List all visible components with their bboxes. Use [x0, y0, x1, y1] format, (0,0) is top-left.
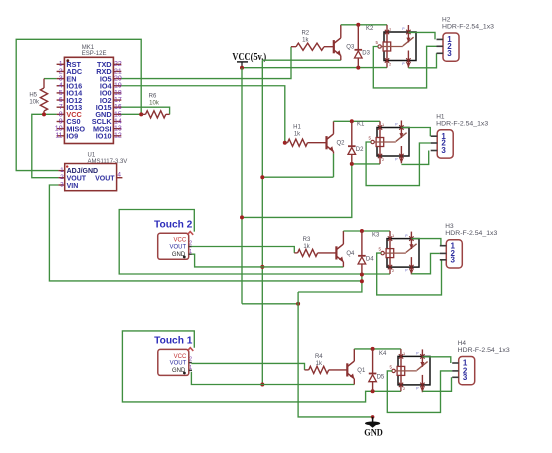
header H4 pin 1 stub [452, 362, 459, 364]
svg-text:K4: K4 [379, 351, 387, 357]
svg-text:H5: H5 [29, 93, 37, 99]
ground symbol GND [364, 415, 383, 439]
svg-text:MK1: MK1 [82, 45, 95, 51]
svg-text:21: 21 [114, 68, 122, 75]
MK1 pin 1 (RST) stub [57, 63, 65, 65]
svg-text:Q1: Q1 [357, 368, 366, 374]
wire IO5 to R2 [121, 47, 291, 79]
MK1 pin 8 (VCC) stub [57, 113, 65, 115]
header H1 pin 3 stub [431, 150, 438, 152]
junction D3 top [356, 23, 360, 27]
wire Touch2 VCC loop to 5V rail / K3 coil [119, 210, 390, 275]
wire K4 bottom contact to H4 pin3 [422, 377, 451, 391]
svg-text:HDR-F-2.54_1x3: HDR-F-2.54_1x3 [442, 24, 494, 31]
K1 coil top pin [379, 121, 381, 127]
svg-text:VCC: VCC [174, 238, 187, 244]
U1 pin 2 (VOUT) stub [58, 177, 64, 179]
MK1 pin 18 (IO0) stub [113, 92, 121, 94]
Touch 1 VOUT pin stub [189, 362, 192, 364]
wire IO15 to R6 [121, 107, 169, 114]
header header H2 [437, 17, 495, 62]
wire K3 top contact to H3 pin1 [411, 239, 441, 246]
junction D5 top [371, 347, 375, 351]
wire K1 top contact to H1 pin1 [401, 128, 430, 137]
wire Touch1 VOUT to R4 [191, 363, 304, 370]
relay relay K3 [379, 232, 420, 275]
wire U1 VIN to 5V rail [49, 185, 362, 281]
MK1 pin 22 (TXD) stub [113, 63, 121, 65]
K4 coil top pin [400, 349, 402, 357]
svg-text:5: 5 [59, 90, 63, 97]
svg-text:20: 20 [114, 76, 122, 83]
Touch 2 VCC pin [187, 232, 193, 235]
svg-text:H1: H1 [436, 113, 445, 120]
svg-text:3: 3 [463, 373, 468, 382]
svg-text:4: 4 [117, 172, 121, 179]
svg-text:Q3: Q3 [346, 45, 355, 51]
svg-text:H1: H1 [293, 125, 301, 131]
svg-text:ESP-12E: ESP-12E [82, 51, 107, 57]
svg-text:D3: D3 [362, 51, 370, 57]
svg-text:VOUT: VOUT [170, 244, 187, 250]
wire K4 pin5 to H4 pin2 [387, 371, 452, 413]
wire Q2 collector to K1 coil top [334, 120, 381, 122]
header H3 pin 1 stub [440, 245, 447, 247]
junction VCC/K1 branch [240, 215, 244, 219]
header H4 pin 2 stub [452, 370, 459, 372]
MK1 pin 11 (IO9) stub [57, 135, 65, 137]
header H2 pin 1 stub [437, 38, 444, 40]
junction GND/Q2 emitter [260, 175, 264, 179]
junction H5/VCC [42, 112, 46, 116]
junction VCC [240, 66, 244, 70]
svg-text:12: 12 [114, 133, 122, 140]
relay relay K2 [376, 25, 417, 68]
wire node to GND symbol run [298, 292, 373, 417]
MK1 pin 7 (IO13) stub [57, 106, 65, 108]
junction D5 bottom [371, 389, 375, 393]
MK1 pin 2 (ADC) stub [57, 70, 65, 72]
Touch 1 VCC pin [187, 348, 193, 351]
header H4 pin 3 stub [452, 376, 459, 378]
wire 3.3V: VCC pin to U1 VOUT [32, 114, 59, 177]
svg-text:IO9: IO9 [66, 132, 78, 141]
wire Q4 collector to K3 coil top [343, 230, 390, 232]
IC MK1 ESP-12E [55, 45, 122, 144]
svg-text:10k: 10k [149, 101, 160, 107]
svg-text:7: 7 [59, 104, 63, 111]
wire Touch2 GND [192, 254, 344, 267]
resistor R6 [141, 94, 169, 118]
svg-text:1: 1 [189, 365, 192, 371]
svg-text:1k: 1k [303, 244, 310, 250]
svg-text:2: 2 [59, 68, 63, 75]
header H1 pin 2 stub [431, 142, 438, 144]
svg-text:VOUT: VOUT [67, 175, 87, 182]
svg-text:3: 3 [451, 256, 456, 265]
wire node to 5V-rail link [298, 275, 362, 293]
svg-text:H4: H4 [458, 340, 467, 347]
wire Q1 collector to K4 coil top [354, 348, 401, 350]
wire K2 top contact to H2 pin1 [408, 32, 435, 39]
junction D4 bottom [360, 273, 364, 277]
wire K1 bottom contact to H1 pin3 [401, 151, 428, 165]
K3 coil top pin [389, 231, 391, 239]
svg-text:2: 2 [189, 357, 192, 363]
svg-text:Touch 1: Touch 1 [154, 336, 193, 347]
transistor Q3 [334, 25, 355, 60]
wire Touch1 VCC loop to K4 coil [122, 331, 401, 402]
header H1 pin 1 stub [431, 135, 438, 137]
wire K3 bottom contact to H3 pin2 [411, 253, 439, 273]
junction GND/Touch1 GND [260, 383, 264, 387]
svg-text:Q2: Q2 [337, 141, 346, 147]
svg-text:D4: D4 [366, 257, 374, 263]
svg-text:1k: 1k [294, 132, 301, 138]
svg-text:14: 14 [114, 118, 122, 125]
MK1 pin 6 (IO12) stub [57, 99, 65, 101]
header H2 pin 2 stub [437, 45, 444, 47]
wire IO4 to H1 resistor [121, 86, 284, 143]
MK1 pin 16 (IO15) stub [113, 106, 121, 108]
wire Touch1 GND / Q1 emitter [191, 372, 354, 385]
svg-text:13: 13 [114, 126, 122, 133]
MK1 pin 9 (CS0) stub [57, 121, 65, 123]
svg-text:HDR-F-2.54_1x3: HDR-F-2.54_1x3 [458, 347, 510, 354]
supply symbol VCC(5v.) [232, 52, 266, 68]
U1 pin 4 (VOUT) stub [117, 177, 123, 179]
svg-text:10k: 10k [29, 100, 40, 106]
junction D3 bottom [356, 66, 360, 70]
svg-text:4: 4 [59, 83, 63, 90]
wire Touch2 VOUT to R3 [191, 247, 294, 253]
svg-text:H2: H2 [442, 17, 451, 24]
MK1 pin 20 (IO5) stub [113, 78, 121, 80]
transistor Q2 [327, 121, 346, 177]
U1 pin 3 (VIN) stub [58, 184, 64, 186]
svg-text:16: 16 [114, 104, 122, 111]
wire GND pin to R6 and ADJ/GND loop [121, 113, 141, 115]
svg-text:K3: K3 [372, 233, 380, 239]
wire K1 pin5 to H1 pin2 [366, 142, 431, 186]
Touch 2 GND pin stub [189, 253, 192, 255]
resistor R3 [294, 237, 336, 257]
MK1 pin 17 (IO2) stub [113, 99, 121, 101]
MK1 pin 21 (RXD) stub [113, 70, 121, 72]
svg-text:D2: D2 [356, 147, 364, 153]
wire K4 top contact to H4 pin1 [422, 357, 450, 363]
relay relay K4 [390, 349, 431, 392]
svg-text:R3: R3 [303, 237, 311, 243]
wire K3 pin5 to H3 pin3 [377, 253, 442, 295]
svg-text:R4: R4 [315, 354, 323, 360]
svg-text:18: 18 [114, 90, 122, 97]
svg-text:IO10: IO10 [96, 132, 112, 141]
svg-text:H3: H3 [445, 223, 454, 230]
svg-text:1k: 1k [302, 38, 309, 44]
junction D2 bottom [350, 162, 354, 166]
svg-text:K1: K1 [357, 122, 365, 128]
svg-text:2: 2 [189, 241, 192, 247]
MK1 pin 13 (MOSI) stub [113, 128, 121, 130]
svg-text:GND: GND [364, 429, 383, 439]
header header H4 [452, 340, 510, 385]
transistor Q4 [336, 231, 355, 267]
junction D4 top [360, 229, 364, 233]
svg-text:R6: R6 [149, 94, 157, 100]
svg-text:HDR-F-2.54_1x3: HDR-F-2.54_1x3 [445, 230, 497, 237]
header header H3 [440, 223, 498, 268]
svg-text:D5: D5 [377, 374, 385, 380]
wire Q3 collector to K2 coil top [341, 24, 387, 26]
wire VCC rail bottom to node [242, 303, 298, 305]
svg-text:3: 3 [59, 76, 63, 83]
wire GND rail horizontal (Q3 emitter) [262, 59, 341, 61]
MK1 pin 4 (IO16) stub [57, 85, 65, 87]
resistor H5 [29, 79, 47, 115]
U1 pin 1 (ADJ/GND) stub [58, 170, 64, 172]
junction VCC bottom node [296, 302, 300, 306]
wire VCC vertical rail [241, 68, 243, 304]
svg-text:Touch 2: Touch 2 [154, 220, 193, 231]
header H3 pin 2 stub [440, 252, 447, 254]
junction VIN/5V link [360, 279, 364, 283]
svg-text:10: 10 [55, 126, 63, 133]
MK1 pin 14 (SCLK) stub [113, 121, 121, 123]
Touch 2 VOUT pin stub [189, 246, 192, 248]
svg-text:11: 11 [55, 133, 62, 140]
svg-text:HDR-F-2.54_1x3: HDR-F-2.54_1x3 [436, 120, 488, 127]
relay relay K1 [369, 121, 410, 164]
MK1 pin 3 (EN) stub [57, 78, 65, 80]
svg-text:17: 17 [114, 97, 122, 104]
Touch 1 GND pin stub [189, 369, 192, 371]
svg-text:3: 3 [447, 49, 452, 58]
resistor H1 [285, 125, 327, 147]
MK1 pin 10 (MISO) stub [57, 128, 65, 130]
svg-text:VOUT: VOUT [95, 175, 115, 182]
K3 coil bottom pin [389, 267, 391, 274]
resistor R4 [305, 354, 348, 374]
svg-text:1: 1 [59, 61, 63, 68]
svg-text:15: 15 [114, 111, 122, 118]
wire VCC rail to D3/K2 coil [242, 67, 387, 69]
svg-text:ADJ/GND: ADJ/GND [67, 168, 99, 175]
K1 coil bottom pin [379, 156, 381, 164]
svg-text:6: 6 [59, 97, 63, 104]
MK1 pin 19 (IO4) stub [113, 85, 121, 87]
K4 coil bottom pin [400, 385, 402, 391]
wire K2 pin5 to H2 pin2 [373, 46, 436, 88]
junction D2 top [350, 119, 354, 123]
svg-text:3: 3 [441, 146, 446, 155]
svg-text:VIN: VIN [67, 183, 79, 190]
svg-text:3: 3 [60, 181, 64, 188]
resistor R2 [291, 31, 334, 51]
svg-text:VCC(5v.): VCC(5v.) [232, 52, 266, 63]
svg-text:K2: K2 [366, 26, 374, 32]
svg-text:9: 9 [59, 118, 63, 125]
junction IO4/H1 [283, 141, 287, 145]
svg-text:19: 19 [114, 83, 122, 90]
IC U1 AMS1117-3.3V [58, 153, 127, 191]
diode D2 [348, 121, 364, 164]
junction R6 left [139, 112, 143, 116]
header H3 pin 3 stub [440, 259, 447, 261]
svg-text:VCC: VCC [174, 354, 187, 360]
svg-text:1: 1 [60, 167, 64, 174]
touch module Touch 2 [154, 220, 193, 260]
svg-text:R2: R2 [301, 31, 309, 37]
MK1 pin 5 (IO14) stub [57, 92, 65, 94]
svg-text:1k: 1k [316, 361, 323, 367]
transistor Q1 [347, 349, 366, 385]
MK1 pin 15 (GND) stub [113, 113, 121, 115]
svg-text:U1: U1 [88, 153, 96, 159]
diode D4 [358, 231, 374, 275]
diode D3 [355, 25, 371, 68]
wire Q2 emitter to GND rail [262, 176, 333, 178]
svg-text:2: 2 [60, 174, 64, 181]
K2 coil bottom pin [386, 61, 388, 68]
MK1 pin 12 (IO10) stub [113, 135, 121, 137]
svg-text:8: 8 [59, 111, 63, 118]
K2 coil top pin [386, 25, 388, 32]
touch module Touch 1 [154, 336, 193, 376]
diode D5 [369, 349, 385, 391]
wire GND rail vertical [261, 60, 263, 384]
junction GND/Touch2 GND [260, 265, 264, 269]
header H2 pin 3 stub [437, 52, 444, 54]
wire VCC to K1 (D2 bottom, coil) [242, 164, 380, 218]
svg-text:22: 22 [114, 61, 122, 68]
svg-text:VOUT: VOUT [170, 361, 187, 367]
wire K2 bottom contact to H2 pin3 [408, 53, 436, 68]
wire EN to H5 [44, 78, 57, 80]
header header H1 [431, 113, 489, 158]
svg-text:Q4: Q4 [346, 251, 355, 257]
